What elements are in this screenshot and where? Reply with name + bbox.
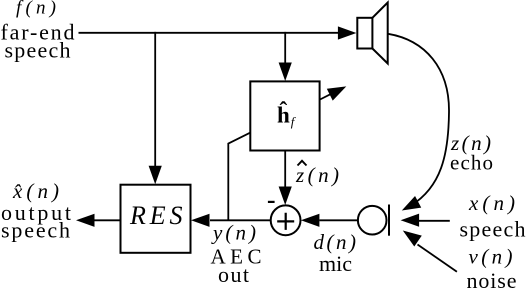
RES block (121, 185, 191, 253)
wire feedback from y(n) to filter (228, 133, 250, 221)
svg-text:RES: RES (129, 201, 183, 230)
wire filter output down to summer (284, 151, 286, 188)
svg-text:v(n): v(n) (469, 244, 513, 268)
svg-text:y(n): y(n) (211, 221, 256, 245)
svg-text:speech: speech (5, 38, 71, 63)
wire noise into mic (418, 245, 457, 272)
summing junction (271, 205, 301, 235)
arrowhead into RES right (191, 214, 210, 227)
svg-text:speech: speech (460, 216, 526, 241)
wire summer output to RES (210, 219, 271, 221)
microphone (358, 206, 387, 235)
arrowhead into summer (279, 187, 292, 206)
wire mic to summer (320, 219, 358, 221)
loudspeaker horn (372, 3, 387, 64)
svg-text:mic: mic (319, 251, 352, 276)
wire near-end speech into mic (416, 220, 450, 222)
adaptation arrow (320, 93, 332, 99)
wire main horizontal far-end to loudspeaker (79, 32, 342, 34)
svg-text:z(n): z(n) (295, 163, 339, 187)
microphone diaphragm (388, 205, 390, 236)
svg-text:speech: speech (1, 217, 70, 242)
wire branch down to RES (154, 32, 156, 168)
svg-text:f(n): f(n) (16, 0, 56, 19)
adaptive filter block U1 (250, 81, 319, 150)
svg-text:x(n): x(n) (468, 191, 515, 215)
arrowhead echo into mic (399, 196, 422, 216)
svg-text:out: out (218, 262, 249, 287)
loudspeaker driver (357, 18, 372, 49)
svg-text:noise: noise (467, 268, 517, 292)
hat of zhat (298, 161, 307, 166)
arrowhead into loudspeaker (338, 26, 357, 39)
wire RES output (95, 219, 121, 221)
svg-text:ĥ: ĥ (277, 101, 290, 127)
svg-text:echo: echo (450, 150, 493, 174)
arrowhead noise into mic (399, 225, 422, 246)
arrowhead speech into mic (401, 214, 420, 227)
arrowhead into filter top (279, 63, 292, 82)
minus sign (268, 201, 275, 203)
arrowhead into summer right (301, 214, 320, 227)
arrowhead into RES top (149, 166, 162, 185)
svg-text:f: f (291, 114, 297, 129)
arrowhead output (76, 214, 95, 227)
wire branch down to adaptive filter (284, 32, 286, 64)
plus sign (277, 213, 294, 230)
echo path curve (388, 34, 449, 206)
